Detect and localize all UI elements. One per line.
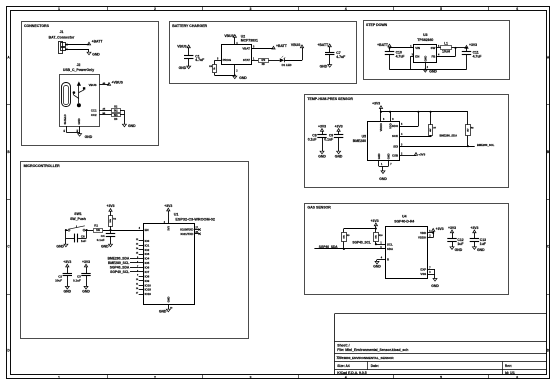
svg-text:1uF: 1uF [480, 242, 486, 246]
svg-text:GND: GND [56, 245, 64, 249]
svg-text:J2: J2 [77, 63, 81, 67]
svg-text:4.7uF: 4.7uF [473, 55, 482, 59]
svg-text:IO7: IO7 [145, 270, 150, 274]
svg-text:+BATT: +BATT [317, 43, 329, 47]
svg-text:U4: U4 [402, 215, 406, 219]
svg-text:Sheet: /: Sheet: / [337, 343, 349, 347]
svg-text:EN: EN [415, 54, 419, 58]
svg-text:VDDIO: VDDIO [379, 123, 383, 131]
svg-text:VIN: VIN [415, 46, 420, 50]
svg-text:+VBUS: +VBUS [111, 80, 123, 84]
svg-text:IO1: IO1 [145, 243, 150, 247]
svg-text:GND: GND [239, 76, 247, 80]
svg-text:CSB: CSB [392, 154, 398, 158]
svg-text:SW_Push: SW_Push [70, 217, 86, 221]
svg-text:+BATT: +BATT [92, 39, 104, 43]
svg-text:4.7uF: 4.7uF [336, 55, 345, 59]
svg-text:2: 2 [154, 7, 156, 11]
svg-text:470: 470 [261, 59, 266, 62]
svg-text:GND: GND [431, 284, 439, 288]
svg-text:+BATT: +BATT [276, 44, 288, 48]
svg-text:SGP40_SCL: SGP40_SCL [110, 270, 129, 274]
svg-text:Date:: Date: [371, 364, 379, 368]
svg-text:KiCad E.D.A. 9.0.5: KiCad E.D.A. 9.0.5 [337, 371, 366, 375]
svg-text:STAT: STAT [243, 58, 250, 62]
svg-text:+3V3: +3V3 [82, 260, 90, 264]
svg-text:+BATT: +BATT [377, 43, 389, 47]
svg-text:BATTERY CHARGER: BATTERY CHARGER [172, 24, 207, 28]
svg-text:GND: GND [179, 66, 187, 70]
svg-text:USB_C_PowerOnly: USB_C_PowerOnly [63, 68, 94, 72]
svg-text:MICROCONTROLLER: MICROCONTROLLER [24, 164, 61, 168]
svg-text:IO3: IO3 [145, 252, 150, 256]
svg-text:STEP DOWN: STEP DOWN [366, 23, 388, 27]
svg-text:ESP32-C3-WROOM-02: ESP32-C3-WROOM-02 [175, 217, 215, 221]
svg-text:GND: GND [92, 52, 100, 56]
svg-text:1: 1 [58, 7, 60, 11]
svg-text:GND: GND [167, 297, 171, 303]
svg-text:BME280: BME280 [353, 139, 366, 143]
svg-text:0.1uF: 0.1uF [324, 137, 333, 141]
svg-text:VBUS: VBUS [177, 45, 187, 49]
svg-text:CONNECTORS: CONNECTORS [24, 24, 50, 28]
svg-text:IO19: IO19 [145, 292, 152, 296]
svg-text:Rev:: Rev: [505, 364, 512, 368]
svg-text:BME280_SDA: BME280_SDA [108, 257, 130, 261]
svg-text:GND: GND [455, 248, 463, 252]
svg-text:1: 1 [58, 376, 60, 380]
svg-text:BAT_Connector: BAT_Connector [49, 36, 75, 40]
svg-text:TEMP-HUM-PRES SENSOR: TEMP-HUM-PRES SENSOR [307, 97, 353, 101]
svg-text:SDI: SDI [393, 144, 398, 148]
svg-text:4: 4 [345, 376, 347, 380]
svg-text:+3V3: +3V3 [106, 204, 114, 208]
svg-text:GND: GND [429, 70, 437, 74]
svg-text:+3V3: +3V3 [63, 260, 71, 264]
svg-text:1uF: 1uF [457, 242, 463, 246]
svg-text:IO21/TXD: IO21/TXD [181, 232, 194, 236]
svg-text:3V3: 3V3 [167, 226, 171, 231]
svg-text:0.1uF: 0.1uF [97, 238, 105, 242]
svg-text:U3: U3 [423, 33, 427, 37]
svg-text:GND: GND [335, 155, 343, 159]
svg-text:File: Mini_Environmental_Senso: File: Mini_Environmental_Sensor.kicad_sc… [337, 348, 408, 352]
svg-text:J1: J1 [60, 30, 64, 34]
svg-text:IO10: IO10 [145, 283, 152, 287]
svg-text:SDO: SDO [392, 124, 399, 128]
svg-text:+3V3: +3V3 [164, 204, 172, 208]
svg-text:0.1uF: 0.1uF [308, 137, 317, 141]
svg-text:PROG: PROG [223, 58, 232, 62]
svg-text:4.7uF: 4.7uF [396, 55, 405, 59]
svg-text:IO4: IO4 [145, 257, 150, 261]
svg-text:GND: GND [379, 177, 387, 181]
svg-text:10uF: 10uF [55, 279, 62, 283]
svg-text:BME280_SCL: BME280_SCL [477, 143, 495, 147]
svg-text:3: 3 [250, 376, 252, 380]
svg-text:VSS: VSS [420, 272, 426, 276]
svg-text:GND: GND [64, 290, 72, 294]
svg-text:Size: A4: Size: A4 [337, 364, 350, 368]
svg-text:MINI_ENVIRONMENTAL_SENSOR: MINI_ENVIRONMENTAL_SENSOR [344, 356, 395, 360]
svg-text:D1 LED: D1 LED [282, 63, 292, 67]
svg-text:GND: GND [128, 124, 136, 128]
svg-text:GND: GND [477, 248, 485, 252]
svg-text:6: 6 [516, 376, 518, 380]
svg-text:GND: GND [159, 310, 167, 314]
svg-text:MCP73831: MCP73831 [241, 39, 258, 43]
svg-text:EN: EN [145, 228, 149, 232]
svg-text:+3V3: +3V3 [469, 43, 477, 47]
svg-text:VDD: VDD [420, 231, 426, 235]
svg-text:0.1uF: 0.1uF [73, 279, 81, 283]
svg-text:C6: C6 [81, 234, 85, 238]
svg-text:VBUS: VBUS [291, 43, 301, 47]
svg-text:GND: GND [82, 290, 90, 294]
svg-text:+3V3: +3V3 [418, 153, 425, 157]
svg-text:2: 2 [154, 376, 156, 380]
svg-text:SHIELD: SHIELD [63, 114, 67, 124]
svg-text:Id: 1/1: Id: 1/1 [505, 371, 515, 375]
svg-text:SCL: SCL [387, 242, 393, 246]
svg-text:SDA: SDA [387, 247, 393, 251]
svg-text:EXP: EXP [420, 267, 426, 271]
svg-text:+3V3: +3V3 [335, 124, 343, 128]
svg-text:SW: SW [431, 46, 436, 50]
svg-text:+3V3: +3V3 [470, 226, 478, 230]
svg-text:U1: U1 [174, 213, 179, 217]
svg-text:GND: GND [423, 56, 427, 62]
svg-text:6: 6 [516, 7, 518, 11]
svg-text:1uF: 1uF [81, 239, 87, 243]
svg-text:SGP40_SDA: SGP40_SDA [110, 265, 130, 269]
svg-text:IO9: IO9 [145, 279, 150, 283]
svg-text:GND: GND [101, 245, 109, 249]
svg-text:GND: GND [77, 118, 81, 124]
svg-text:GND: GND [320, 65, 328, 69]
svg-text:FB: FB [431, 54, 435, 58]
svg-text:+3V3: +3V3 [371, 219, 379, 223]
svg-text:VDDH: VDDH [418, 236, 426, 240]
svg-text:IO6: IO6 [145, 266, 150, 270]
svg-text:SW1: SW1 [74, 212, 81, 216]
svg-text:BME280_SCL: BME280_SCL [108, 261, 129, 265]
svg-text:GND: GND [85, 135, 93, 139]
svg-text:BME280_SDA: BME280_SDA [440, 133, 458, 137]
svg-text:GND: GND [318, 155, 326, 159]
svg-text:R1: R1 [94, 224, 98, 228]
svg-text:GAS SENSOR: GAS SENSOR [307, 206, 331, 210]
svg-text:CC2: CC2 [91, 113, 97, 117]
svg-text:VBUS: VBUS [89, 83, 97, 87]
svg-text:IO0: IO0 [145, 239, 150, 243]
svg-text:IO18: IO18 [145, 288, 152, 292]
svg-text:+3V3: +3V3 [372, 102, 380, 106]
svg-text:GND: GND [373, 265, 381, 269]
svg-text:4.7uF: 4.7uF [195, 58, 204, 62]
svg-text:+3V3: +3V3 [318, 124, 326, 128]
svg-text:3: 3 [250, 7, 252, 11]
svg-text:TPS62840: TPS62840 [417, 38, 433, 42]
svg-text:SCK: SCK [392, 134, 399, 138]
svg-text:L1: L1 [444, 42, 448, 46]
svg-text:GND: GND [377, 153, 381, 159]
svg-text:10uH: 10uH [442, 50, 451, 54]
svg-text:5: 5 [440, 376, 442, 380]
svg-text:VBAT: VBAT [242, 47, 250, 51]
svg-text:IO20/RXD: IO20/RXD [180, 228, 193, 232]
svg-text:GND: GND [387, 153, 391, 159]
svg-text:CC1: CC1 [91, 108, 97, 112]
svg-text:IO2: IO2 [145, 248, 150, 252]
svg-text:IO8: IO8 [145, 274, 150, 278]
svg-text:IO5: IO5 [145, 261, 150, 265]
svg-text:SGP40_SCL: SGP40_SCL [352, 240, 371, 244]
svg-text:4: 4 [345, 7, 347, 11]
svg-text:+3V3: +3V3 [436, 227, 444, 231]
svg-text:SGP40-D-R4: SGP40-D-R4 [394, 220, 414, 224]
svg-text:5: 5 [440, 7, 442, 11]
svg-text:+3V3: +3V3 [448, 226, 456, 230]
